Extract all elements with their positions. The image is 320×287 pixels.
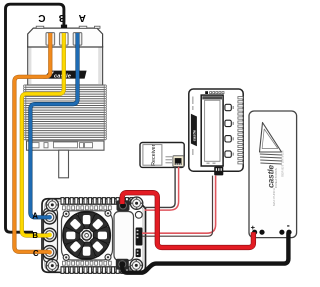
motor bottom endcap (27, 141, 105, 150)
ESC bullet A (43, 211, 56, 224)
programmer grip teeth (238, 97, 243, 164)
motor terminal cups (46, 33, 82, 50)
ESC bullet C (43, 246, 56, 259)
motor fins (24, 85, 107, 140)
programmer U2 (Field Link) body (189, 89, 243, 171)
svg-text:Receiver: Receiver (151, 144, 157, 165)
svg-text:C: C (33, 249, 39, 258)
ESC 2-pin connector (136, 249, 141, 258)
ESC 3-pin connector (136, 228, 143, 246)
svg-text:MAX PUNCH: MAX PUNCH (272, 188, 276, 206)
ESC bullet plate (44, 209, 58, 263)
battery logo (rotated) (260, 123, 285, 207)
wire programmer-ESC link (red) (142, 176, 213, 237)
svg-text:castle: castle (192, 129, 197, 141)
svg-text:-: - (287, 221, 290, 231)
wire motor A (blue) (30, 33, 77, 217)
ESC corner screws (46, 197, 143, 272)
wire motor B (yellow) (22, 33, 64, 236)
svg-text:A B C: A B C (33, 12, 86, 23)
wire battery positive (red) (122, 193, 253, 248)
programmer left markings (192, 97, 193, 156)
wire receiver-ESC signal (dark) (145, 167, 176, 208)
wire battery negative (black) (122, 233, 288, 273)
ESC negative pad (116, 259, 129, 270)
ESC fan screws (63, 210, 111, 260)
ESC fan (63, 212, 111, 260)
programmer LCD (201, 95, 223, 166)
ESC heatsink teeth top (61, 198, 133, 205)
wire motor C (orange) (14, 33, 50, 252)
ESC positive pad (117, 200, 130, 211)
motor shaft (59, 150, 69, 178)
ESC heatsink teeth bottom (61, 267, 133, 274)
svg-text:A: A (32, 211, 38, 220)
svg-text:CREATIONS: CREATIONS (274, 168, 278, 188)
ESC inner comb bottom (63, 261, 112, 265)
svg-text:B: B (32, 231, 38, 240)
receiver throttle connector (173, 156, 184, 167)
wire programmer-ESC link (dark) (142, 176, 216, 234)
svg-text:SERIES DRIVEN: SERIES DRIVEN (281, 150, 285, 177)
ESC aux button (135, 211, 142, 218)
programmer link port (214, 167, 223, 176)
battery BT1 (249, 111, 297, 238)
programmer top indicator row (205, 91, 224, 94)
ESC bullet B (43, 228, 56, 241)
ESC right plate (114, 212, 134, 261)
programmer castle logo (191, 114, 197, 147)
receiver RX1 (140, 143, 184, 168)
wire receiver-ESC signal (red) (145, 167, 179, 210)
ESC fan shroud (62, 211, 113, 260)
motor logo band (43, 71, 86, 80)
ESC inner comb top (63, 206, 112, 210)
programmer buttons (225, 104, 234, 157)
battery terminal dots (252, 230, 292, 235)
wire black jumper (motor B loop) (6, 4, 68, 232)
motor M1 (28, 26, 103, 85)
ESC U1 body (42, 199, 146, 273)
